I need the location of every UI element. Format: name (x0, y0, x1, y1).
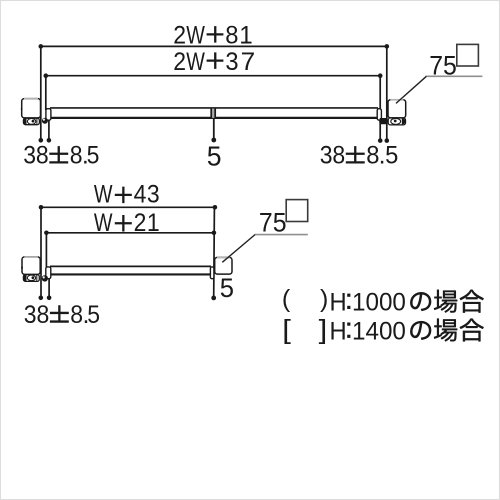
left post clamp (21, 108, 40, 125)
svg-text:8: 8 (70, 142, 83, 170)
dimension line W+21 (44, 231, 216, 236)
label 38±8.5 (lower) (24, 301, 100, 329)
svg-text:1000: 1000 (352, 289, 406, 316)
svg-text:1400: 1400 (352, 318, 406, 345)
kanji の (line2) (410, 321, 431, 339)
label 2W+81 (173, 21, 252, 49)
svg-text:]: ] (319, 315, 328, 345)
svg-text:7: 7 (241, 48, 256, 75)
svg-text:W: W (186, 21, 205, 49)
kanji 場 (line1) (434, 290, 457, 313)
svg-text:2: 2 (134, 209, 147, 237)
svg-text:H: H (330, 289, 347, 317)
kanji 合 (line2) (460, 319, 484, 342)
leader diagonal top (396, 76, 426, 103)
svg-text:5: 5 (87, 301, 100, 329)
svg-text:H: H (330, 318, 347, 346)
svg-text:W: W (94, 180, 113, 208)
extension line left inner (lower) (45, 233, 47, 268)
extension line left outer (lower) (39, 207, 44, 300)
svg-text:3: 3 (225, 48, 238, 76)
dimension line 2W+81 (39, 44, 390, 49)
left post clamp (lower) (21, 267, 39, 282)
label 38±8.5 left (23, 142, 99, 170)
dimension line 2W+37 (44, 73, 383, 78)
rail right end cap (lower) (210, 267, 214, 279)
svg-text:4: 4 (134, 181, 147, 209)
extension line left outer (39, 46, 44, 142)
svg-text:8: 8 (37, 301, 50, 329)
extension line right outer (385, 46, 390, 143)
svg-text:5: 5 (220, 272, 234, 303)
extension line right inner (378, 76, 383, 143)
rail bottom edge (50, 117, 378, 119)
svg-text:75: 75 (259, 209, 287, 238)
extension line left post edge (47, 120, 52, 143)
center joint (212, 109, 215, 118)
svg-text:[: [ (282, 315, 291, 345)
rail right end cap (377, 109, 381, 121)
left post bracket (lower) (22, 257, 40, 275)
label W+43 (94, 180, 160, 208)
rail top edge (lower) (50, 265, 211, 267)
svg-text:W: W (186, 48, 205, 76)
left post bracket (22, 99, 41, 118)
rail top edge (50, 107, 378, 109)
svg-text:2: 2 (173, 22, 186, 50)
svg-text:(: ( (282, 285, 291, 313)
svg-text:5: 5 (87, 142, 100, 170)
label 38±8.5 right (320, 142, 399, 170)
svg-text:3: 3 (320, 142, 333, 170)
svg-text:8: 8 (366, 142, 379, 170)
svg-text:5: 5 (207, 140, 222, 172)
kanji 合 (line1) (460, 290, 484, 313)
extension line right (lower) (211, 207, 216, 300)
svg-text:1: 1 (147, 209, 160, 237)
svg-text:8: 8 (332, 142, 345, 170)
square symbol lower (286, 200, 308, 222)
joint gap marker 5 (211, 119, 216, 142)
square symbol top (457, 44, 479, 66)
kanji の (line1) (410, 292, 431, 310)
right post bracket (388, 100, 406, 118)
svg-text:1: 1 (239, 22, 252, 49)
extension line left post edge (lower) (47, 277, 52, 300)
right hinge dark piece (379, 118, 388, 124)
left hinge dark piece (42, 118, 48, 124)
svg-text:W: W (94, 209, 113, 237)
svg-text:8: 8 (70, 301, 83, 329)
leader underline top (426, 75, 483, 77)
right post bracket (lower) (215, 257, 232, 274)
rail bottom edge (lower) (50, 273, 211, 275)
svg-text:3: 3 (24, 301, 37, 329)
leader diagonal lower (222, 235, 255, 263)
svg-text:8: 8 (36, 142, 49, 170)
kanji 場 (line2) (434, 319, 457, 342)
svg-text:8: 8 (225, 22, 238, 50)
svg-text:5: 5 (385, 142, 398, 170)
extension line left inner (45, 76, 47, 110)
dimension line W+43 (39, 205, 218, 210)
svg-text:): ) (320, 285, 328, 313)
label 2W+37 (173, 48, 255, 76)
leader underline lower (254, 234, 307, 236)
left hinge dark piece (lower) (42, 275, 48, 281)
svg-text:2: 2 (173, 48, 186, 76)
right post clamp (388, 118, 405, 125)
svg-text:3: 3 (23, 142, 36, 170)
label W+21 (94, 209, 160, 237)
rail left end cap (46, 109, 51, 121)
svg-text:3: 3 (147, 181, 160, 209)
rail left end cap (lower) (46, 267, 51, 279)
